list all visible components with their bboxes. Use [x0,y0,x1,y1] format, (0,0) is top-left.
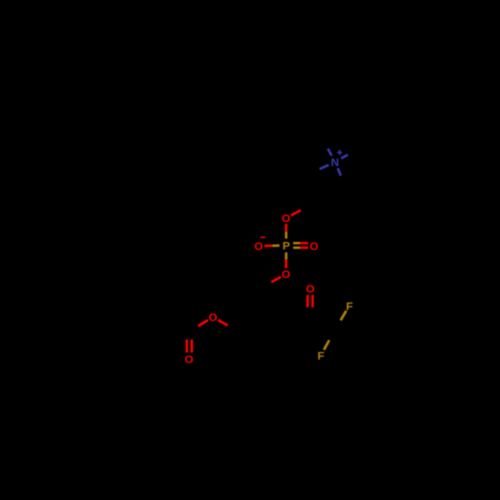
bond P-O(-), P half [273,244,280,247]
svg-text:P: P [283,241,291,253]
bond C-F2, F half [324,340,329,350]
bond P-O4, P half [285,252,288,259]
bond N-CH3 (up-left), N half [328,149,332,156]
svg-text:O: O [282,269,291,281]
svg-text:N: N [331,157,339,169]
svg-text:O: O [209,312,218,324]
bond P-O(-), O half [264,244,272,247]
charge minus on O [260,236,265,238]
svg-text:O: O [306,283,315,295]
bond N-CH2, N half [320,165,329,169]
bond O1-P, P half [285,232,288,239]
bond ester O-C(=O), O half [198,320,208,326]
bond P-O4, O half [285,260,288,269]
bond ester O-CH2, O half [218,320,228,326]
double bond C=O (ketone), O half [311,295,313,308]
bond C-F1, F half [341,311,347,321]
double bond P=O, P half [293,242,300,244]
svg-text:O: O [310,241,319,253]
double bond P=O, O half [300,242,308,244]
bond O1-P, O half [285,224,288,232]
double bond C=O (ester carbonyl), O half [186,340,188,353]
svg-text:O: O [282,213,291,225]
charge plus on N [337,150,342,155]
bond N-CH3 (down), N half [338,168,341,175]
svg-text:F: F [346,301,353,313]
double bond P=O, O half [300,246,308,248]
svg-text:F: F [318,350,325,362]
double bond C=O (ester carbonyl), O half [191,340,193,353]
bond O-CH2 (glycerol C1), O half [271,277,281,282]
svg-text:O: O [185,354,194,366]
double bond C=O (ketone), O half [306,295,308,308]
svg-text:O: O [254,241,263,253]
bond N-CH3 (right), N half [341,155,348,159]
bond O-CH2 (choline side), O half [291,210,301,215]
double bond P=O, P half [293,246,300,248]
